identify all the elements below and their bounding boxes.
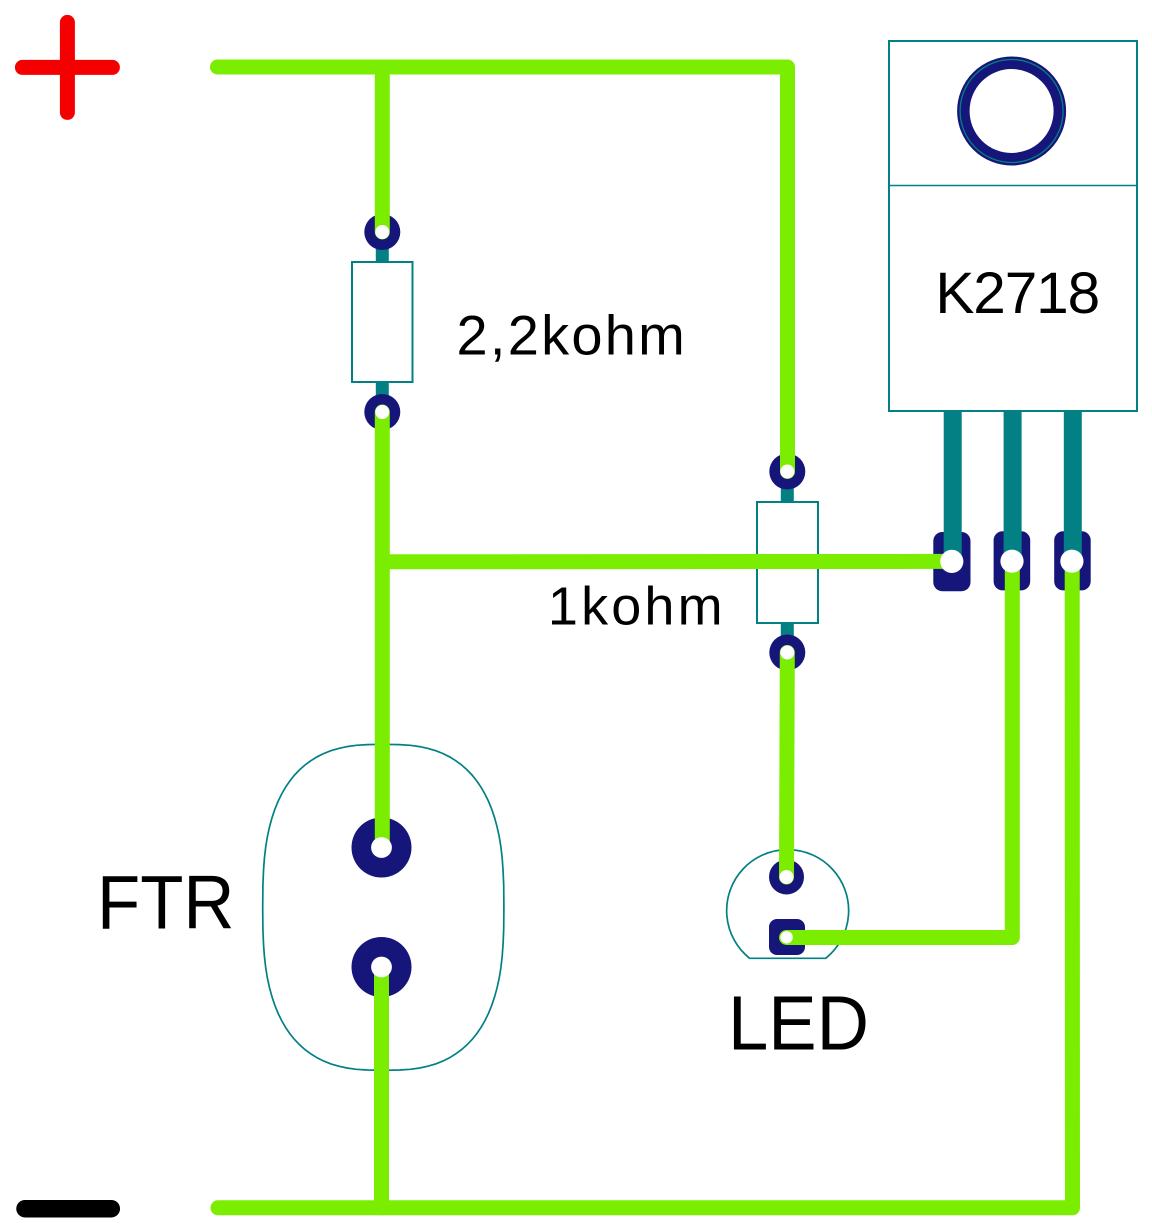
svg-text:1kohm: 1kohm <box>548 576 726 636</box>
svg-text:LED: LED <box>728 980 869 1066</box>
svg-text:2,2kohm: 2,2kohm <box>457 303 688 366</box>
svg-text:FTR: FTR <box>97 861 235 946</box>
svg-text:K2718: K2718 <box>935 261 1099 326</box>
